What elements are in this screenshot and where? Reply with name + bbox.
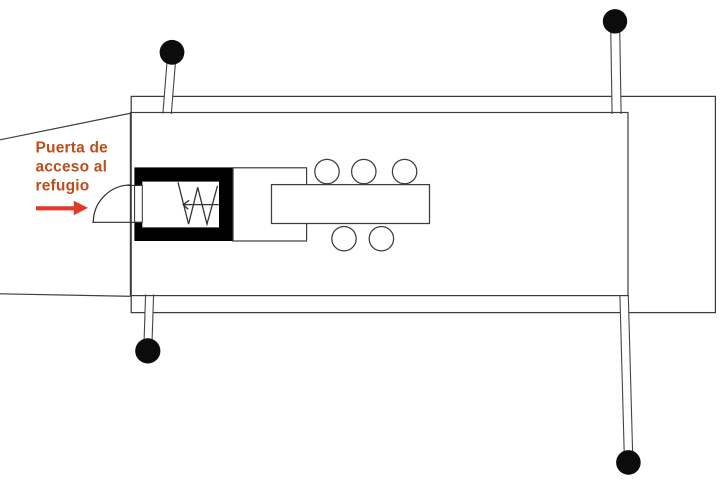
foot ball bottom-left (135, 338, 160, 363)
foot ball bottom-right (616, 450, 641, 475)
room extension rectangle (233, 168, 307, 241)
foot ball top-left (160, 40, 185, 65)
svg-text:acceso al: acceso al (36, 158, 108, 175)
red arrow pointing to door (36, 201, 88, 216)
table (272, 185, 430, 224)
refuge room interior (142, 182, 219, 228)
door swing arc (93, 185, 130, 222)
folding stairs W symbol (178, 182, 218, 224)
svg-text:refugio: refugio (36, 177, 90, 194)
foot ball top-right (603, 9, 627, 33)
stabilizer leg bottom-left (144, 295, 154, 347)
door opening channel (135, 185, 143, 222)
svg-text:Puerta de: Puerta de (36, 139, 109, 156)
cab bottom line (0, 294, 131, 297)
door chord line (92, 221, 142, 223)
stabilizer leg top-right (611, 21, 622, 114)
stabilizer leg top-left (163, 51, 176, 114)
cab top line (0, 113, 131, 140)
top seats row (3 circles) (315, 159, 339, 183)
stairs direction arrow line (183, 204, 219, 206)
stairs arrow head (183, 200, 189, 209)
bottom seats row (2 circles) (332, 227, 356, 251)
refuge room (thick black box) (134, 167, 233, 241)
cabin (inner rectangle) (130, 113, 628, 296)
trailer platform (outer rectangle) (131, 96, 715, 312)
stabilizer leg bottom-right (620, 295, 633, 456)
door top line (127, 184, 142, 186)
